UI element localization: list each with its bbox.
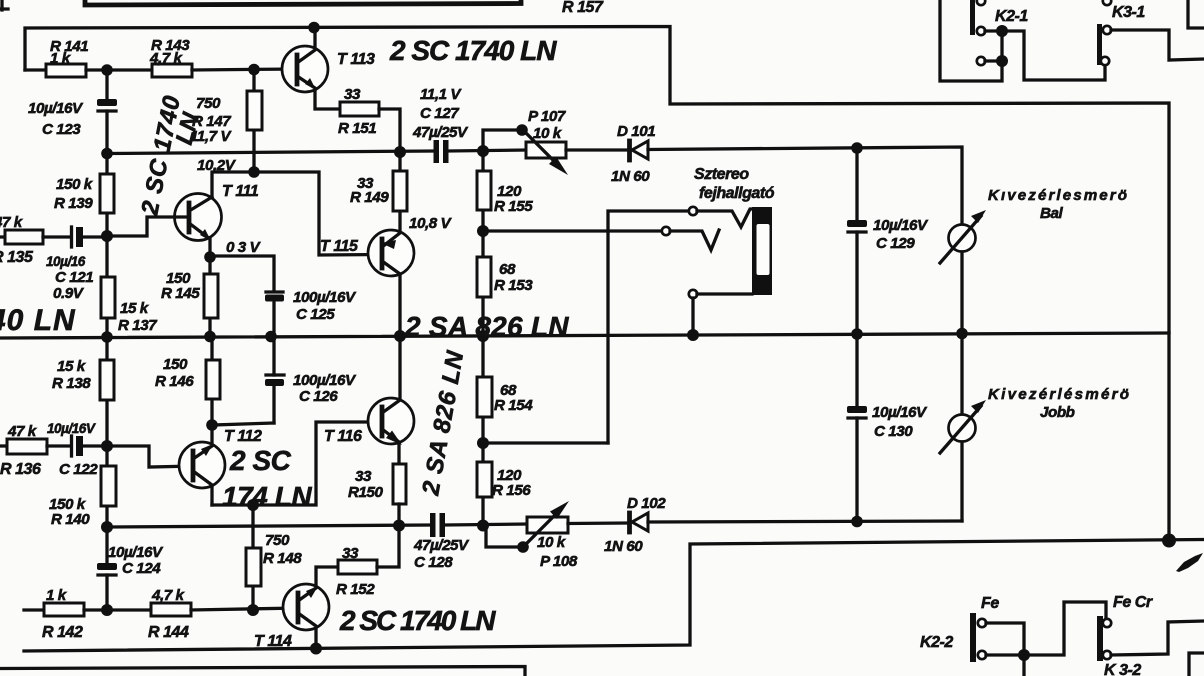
svg-text:1 k: 1 k <box>46 587 68 604</box>
node junction dot K2-1 a <box>996 25 1008 37</box>
svg-text:C 130: C 130 <box>874 423 913 440</box>
resistor R147 <box>190 69 262 172</box>
svg-text:10 k: 10 k <box>533 125 563 142</box>
svg-text:R 140: R 140 <box>51 511 90 528</box>
connector K2-2 bar <box>970 613 976 662</box>
resistor R152 <box>336 526 399 598</box>
wire K2-1 left return <box>940 0 1002 81</box>
node junction dot T111 emitter <box>204 251 216 263</box>
svg-text:1N 60: 1N 60 <box>611 168 650 185</box>
connector K3-2 contact a <box>1103 619 1111 627</box>
capacitor C121 <box>43 227 107 302</box>
svg-text:0.9V: 0.9V <box>53 285 85 302</box>
node contact circle jack tip <box>689 207 697 215</box>
capacitor C129 <box>847 148 929 334</box>
svg-text:R 144: R 144 <box>148 624 189 641</box>
wire lower output rail left part <box>107 525 431 527</box>
label Sztereo fejhallgato <box>694 166 775 202</box>
node junction dot R156 bottom on rail <box>477 520 489 532</box>
resistor R136 (partially off left edge) <box>0 423 47 478</box>
svg-text:10µ/16V: 10µ/16V <box>873 217 929 234</box>
svg-text:D 101: D 101 <box>617 123 655 140</box>
svg-text:1 k: 1 k <box>50 50 72 67</box>
wire jack tip spring <box>697 209 752 227</box>
node junction dot R150/R152 on lower rail <box>393 520 405 532</box>
node junction dot C124 bottom <box>101 604 113 616</box>
wire K3-2 to right edge <box>1111 621 1204 655</box>
svg-text:Sztereo: Sztereo <box>694 166 749 183</box>
svg-text:T 112: T 112 <box>224 428 262 445</box>
wire jack sleeve to ground bus <box>693 294 752 336</box>
diode D101 <box>611 123 655 185</box>
transistor T112 <box>179 428 262 505</box>
svg-text:15 k: 15 k <box>120 300 150 317</box>
wire top box edge corner left <box>0 0 8 10</box>
svg-text:33: 33 <box>342 545 359 562</box>
node junction dot R145 bottom on bus <box>204 331 216 343</box>
resistor R137 <box>101 236 158 336</box>
svg-text:100µ/16V: 100µ/16V <box>293 372 357 389</box>
svg-text:10µ/16V: 10µ/16V <box>47 421 96 436</box>
svg-text:C 126: C 126 <box>299 388 338 405</box>
wire left channel output to jack ring contact <box>483 229 662 232</box>
transistor T115 <box>320 230 414 336</box>
svg-text:K2-1: K2-1 <box>995 8 1028 25</box>
connector K2-2 contact a <box>978 619 986 627</box>
node junction dot C130 bottom on rail <box>851 516 863 528</box>
svg-text:C 121: C 121 <box>55 269 93 286</box>
wire T112 emitter net <box>212 423 274 446</box>
node junction dot T113 collector on top rail <box>308 22 320 34</box>
connector K3-1 bar <box>1097 24 1102 65</box>
svg-text:33: 33 <box>344 86 361 103</box>
svg-text:T 111: T 111 <box>222 183 259 200</box>
capacitor C130 <box>847 334 928 521</box>
svg-text:150: 150 <box>163 356 188 373</box>
svg-text:R 145: R 145 <box>161 285 200 302</box>
connector K2-1 bar <box>970 0 975 35</box>
svg-text:47µ/25V: 47µ/25V <box>412 124 469 141</box>
svg-text:Jobb: Jobb <box>1040 404 1075 421</box>
svg-text:4,7 k: 4,7 k <box>151 587 186 604</box>
svg-text:D 102: D 102 <box>627 495 666 512</box>
svg-text:174 LN: 174 LN <box>222 481 312 512</box>
svg-text:T 114: T 114 <box>254 633 292 650</box>
wire P108 to D102 <box>568 521 628 525</box>
svg-text:11,1 V: 11,1 V <box>420 86 462 103</box>
wire mid ground bus full width <box>0 333 1169 338</box>
svg-text:C 124: C 124 <box>122 560 161 577</box>
svg-text:R 137: R 137 <box>118 317 158 334</box>
svg-text:R 152: R 152 <box>336 581 375 598</box>
svg-text:2 SA 826 LN: 2 SA 826 LN <box>404 311 569 342</box>
node contact circle jack ring <box>662 227 670 235</box>
svg-text:2 SC 1740 LN: 2 SC 1740 LN <box>339 605 496 636</box>
svg-text:750: 750 <box>265 532 290 549</box>
svg-text:R 151: R 151 <box>338 120 376 137</box>
wire top right corner stub <box>1188 0 1204 28</box>
resistor R151 <box>338 86 400 152</box>
svg-text:100µ/16V: 100µ/16V <box>293 289 357 306</box>
resistor R142 <box>24 587 84 641</box>
resistor R156 <box>477 443 531 527</box>
svg-text:R 156: R 156 <box>492 482 531 499</box>
resistor R143 <box>149 37 192 77</box>
svg-text:Kivezérlésmérö: Kivezérlésmérö <box>988 386 1130 403</box>
svg-text:R150: R150 <box>348 484 384 501</box>
svg-text:K2-2: K2-2 <box>920 634 953 651</box>
node junction dot T115 emitter on bus <box>394 330 406 342</box>
node junction dot R153 bottom on bus <box>477 330 489 342</box>
svg-text:R 155: R 155 <box>494 198 533 215</box>
svg-text:R 157: R 157 <box>562 0 604 16</box>
svg-text:10 k: 10 k <box>537 534 567 551</box>
svg-text:T 116: T 116 <box>324 428 362 445</box>
resistor R140 <box>49 446 116 528</box>
svg-text:P 108: P 108 <box>540 553 578 570</box>
resistor R149 <box>350 152 407 231</box>
wire main top supply rail <box>25 27 1169 542</box>
svg-text:R 153: R 153 <box>494 277 533 294</box>
node big junction dot right boundary <box>1162 534 1176 548</box>
wire T112 collector net to R148 and T116 <box>212 422 382 505</box>
diode D102 <box>604 495 666 555</box>
wire C127 to P107 <box>448 150 526 151</box>
wire T111 base to input node <box>107 217 189 236</box>
wire R142 to R144 <box>84 608 151 611</box>
meter Kivezerlesmero Jobb <box>940 334 1130 521</box>
wire D101 to meter branch <box>648 147 962 225</box>
svg-text:750: 750 <box>196 95 221 112</box>
wire P107 to D101 <box>566 148 628 151</box>
wire K2-2 loop <box>986 602 1106 655</box>
wire right channel vertical to jack tip contact <box>608 211 689 443</box>
svg-text:Bal: Bal <box>1040 205 1064 222</box>
wire T111 collector net to R147 and T115 base <box>212 172 382 255</box>
wire bottom boundary with step <box>24 540 1204 652</box>
resistor R135 (partially off left edge) <box>0 214 43 266</box>
label big 2 SC 174 LN at T112 <box>222 445 312 512</box>
node flow arrow mark near right boundary corner <box>1176 553 1203 572</box>
node junction dot R155/R153 <box>477 225 489 237</box>
node junction dot T114 collector on bottom wire <box>310 643 322 655</box>
capacitor C124 <box>97 527 164 610</box>
connector K3-2 bar <box>1097 616 1103 661</box>
node junction dot R147 top <box>248 64 260 76</box>
svg-text:40 LN: 40 LN <box>0 304 76 337</box>
svg-text:47 k: 47 k <box>0 214 24 231</box>
svg-text:33: 33 <box>355 468 372 485</box>
node junction dot R147 bottom <box>248 166 260 178</box>
connector K2-1 contact b <box>977 57 985 65</box>
svg-text:C 122: C 122 <box>59 461 98 478</box>
node junction dot R137 bottom on bus <box>101 331 113 343</box>
svg-text:1N 60: 1N 60 <box>604 538 643 555</box>
wire R154 junction to jack vertical <box>483 441 608 444</box>
capacitor C123 <box>28 70 117 154</box>
capacitor C127 <box>412 86 469 163</box>
node junction dot R148 bottom <box>247 604 259 616</box>
resistor R145 <box>161 257 218 336</box>
potentiometer P108 <box>486 501 578 570</box>
connector K2-1 contact a <box>977 27 985 35</box>
resistor R150 <box>348 464 406 526</box>
svg-text:Kıvezérlesmerö: Kıvezérlesmerö <box>988 187 1128 204</box>
wire R143 to T113 base <box>192 69 297 70</box>
transistor T116 <box>324 336 414 464</box>
svg-text:R 136: R 136 <box>0 461 41 478</box>
svg-text:10,8 V: 10,8 V <box>409 215 453 232</box>
node junction dot K2-2 <box>1018 649 1030 661</box>
capacitor C125 <box>210 256 357 338</box>
svg-text:10µ/16: 10µ/16 <box>46 254 86 269</box>
meter Kivezerlesmero Bal <box>940 187 1128 334</box>
svg-text:R 146: R 146 <box>155 373 194 390</box>
wire T112 base feed <box>107 446 193 467</box>
wire R141 to R143 <box>86 68 152 71</box>
svg-text:Fe: Fe <box>981 595 999 612</box>
resistor R144 <box>148 587 191 641</box>
node junction dot R140 bottom on lower rail <box>101 521 113 533</box>
svg-text:R 154: R 154 <box>494 397 533 414</box>
node junction dot sleeve on bus <box>687 329 699 341</box>
wire upper box bottom edge <box>85 0 521 5</box>
node junction dot input node <box>101 230 113 242</box>
resistor R153 <box>477 231 533 336</box>
node junction dot C123 bottom on rail <box>101 148 113 160</box>
wire R144 to T114 base <box>191 608 298 610</box>
svg-text:47µ/25V: 47µ/25V <box>413 537 470 554</box>
node junction dot K2-1 b <box>996 55 1008 67</box>
svg-text:C 125: C 125 <box>296 306 335 323</box>
node junction dot C129 top <box>851 142 863 154</box>
wire bottom right corner stub <box>1189 653 1204 676</box>
svg-text:150 k: 150 k <box>56 176 94 193</box>
node junction dot meter Bal on bus <box>956 328 968 340</box>
node junction dot R151/R149 on rail <box>394 146 406 158</box>
svg-text:C 123: C 123 <box>42 121 81 138</box>
svg-text:C 129: C 129 <box>876 235 915 252</box>
svg-text:R 138: R 138 <box>52 375 91 392</box>
connector K3-1 contact b <box>1101 57 1109 65</box>
svg-text:K 3-2: K 3-2 <box>1104 662 1141 676</box>
node junction dot T112 emitter net <box>206 419 218 431</box>
svg-text:T 115: T 115 <box>320 238 359 255</box>
node junction dot T112 input node <box>101 440 113 452</box>
svg-text:R 139: R 139 <box>54 195 93 212</box>
svg-text:4,7 k: 4,7 k <box>149 50 184 67</box>
wire R141 left feed from rail <box>25 68 46 71</box>
resistor R155 <box>477 151 533 231</box>
svg-text:10µ/16V: 10µ/16V <box>28 100 84 117</box>
capacitor C126 <box>265 337 357 423</box>
node junction dot R155 top on rail <box>477 145 489 157</box>
wire K3-1 to right edge <box>1111 30 1204 60</box>
svg-text:10µ/16V: 10µ/16V <box>872 404 928 421</box>
svg-text:K3-1: K3-1 <box>1112 4 1145 21</box>
headphone jack plug body <box>752 207 772 295</box>
node junction dot R154/R156 <box>477 437 489 449</box>
wire bottom section box edge <box>0 667 525 676</box>
node junction dot C129 bottom on bus <box>851 328 863 340</box>
svg-text:T 113: T 113 <box>337 51 375 68</box>
transistor T114 <box>254 567 338 650</box>
svg-text:C 128: C 128 <box>414 554 453 571</box>
node junction dot R141/R143/C123 <box>101 64 113 76</box>
resistor R146 <box>155 336 220 425</box>
resistor R141 <box>46 38 88 77</box>
wire C128 to P108 <box>445 524 527 525</box>
transistor T111 <box>175 183 259 257</box>
resistor R139 <box>54 154 114 236</box>
svg-text:fejhallgató: fejhallgató <box>699 185 775 202</box>
resistor R148 <box>246 505 302 610</box>
svg-text:68: 68 <box>499 261 516 278</box>
node junction dot C125 bottom on bus <box>265 331 277 343</box>
svg-text:R 135: R 135 <box>0 249 34 266</box>
svg-text:2 SC 1740 LN: 2 SC 1740 LN <box>389 35 557 66</box>
wire jack ring spring <box>670 230 719 250</box>
svg-text:R 142: R 142 <box>42 624 83 641</box>
capacitor C122 <box>47 421 107 478</box>
svg-text:C 127: C 127 <box>420 105 460 122</box>
node contact circle jack sleeve <box>689 290 697 298</box>
resistor R138 <box>52 337 114 446</box>
connector K3-1 contact top (cut) <box>1103 0 1111 5</box>
svg-text:Fe Cr: Fe Cr <box>1113 594 1153 611</box>
connector K3-2 contact b <box>1103 651 1111 659</box>
svg-text:2 SC: 2 SC <box>229 445 292 476</box>
svg-text:R 149: R 149 <box>350 189 389 206</box>
wire K2-1 to K3-1 link <box>1002 31 1105 80</box>
potentiometer P107 <box>483 108 568 175</box>
wire D102 to meter Jobb branch <box>648 521 962 522</box>
wire mid rail left half <box>107 151 435 154</box>
connector K3-1 contact a <box>1103 26 1111 34</box>
wire K2-2 drop to bottom edge <box>1022 655 1025 676</box>
svg-text:P 107: P 107 <box>528 108 567 125</box>
capacitor C128 <box>413 513 470 571</box>
svg-text:47 k: 47 k <box>7 423 38 440</box>
connector K2-2 contact b <box>978 651 986 659</box>
svg-text:10µ/16V: 10µ/16V <box>108 544 164 561</box>
connector K2-1 contact top (cut) <box>977 0 985 5</box>
svg-text:R 148: R 148 <box>263 550 302 567</box>
svg-text:0 3 V: 0 3 V <box>226 239 262 256</box>
node junction dot R148 top <box>247 499 259 511</box>
transistor T113 <box>282 27 375 109</box>
resistor R154 <box>477 336 533 443</box>
svg-text:15 k: 15 k <box>57 358 87 375</box>
